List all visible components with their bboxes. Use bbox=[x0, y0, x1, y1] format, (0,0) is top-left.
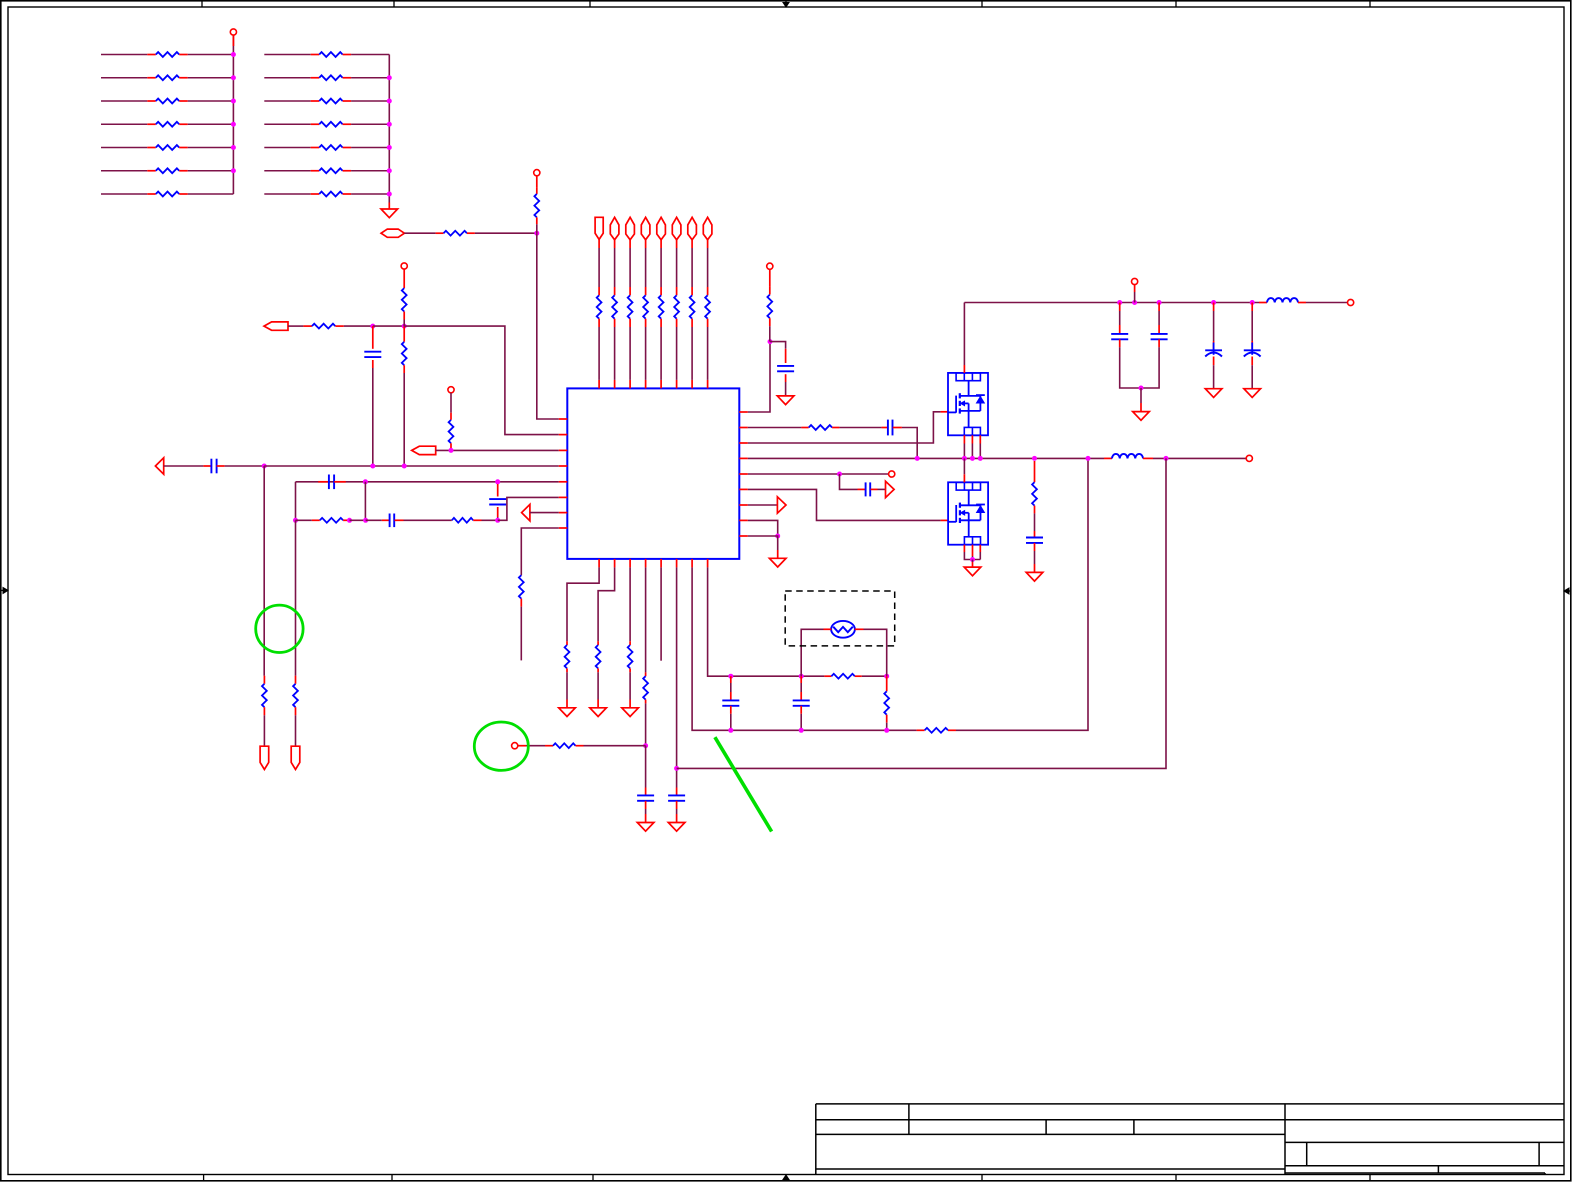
resistor R33 bbox=[769, 287, 771, 295]
wire flag column 1 bbox=[598, 239, 600, 248]
IC U1 left pin 2 bbox=[559, 434, 568, 436]
IC U1 bottom pin 5 bbox=[660, 559, 662, 568]
resistor R13 bbox=[311, 170, 320, 172]
capacitor C15 bbox=[676, 788, 678, 796]
junction SW snubber bbox=[1032, 456, 1037, 461]
junction pin9R bbox=[775, 534, 780, 539]
capacitor C3 bbox=[318, 481, 329, 483]
resistor R21 bbox=[312, 519, 320, 521]
green annotation circle 1 bbox=[256, 605, 303, 652]
flag F7 hex bbox=[688, 217, 697, 240]
ground C13 bbox=[1244, 389, 1261, 398]
resistor R34 bbox=[801, 427, 808, 429]
capacitor C12 polarized bbox=[1213, 303, 1215, 312]
junction right bank row 4 bbox=[387, 122, 392, 127]
wire pin7R bbox=[748, 504, 778, 506]
IC U1 right pin 3 bbox=[739, 442, 748, 444]
junction railA C17 bbox=[799, 674, 804, 679]
terminal above R18 bbox=[401, 263, 407, 269]
wire pin9R bbox=[748, 536, 778, 550]
wire node B rail to pin 2 left bbox=[404, 326, 559, 435]
wire pinB5 dangling bbox=[660, 567, 662, 660]
wire Q2 drain bbox=[963, 474, 965, 482]
wire right bank row 4 to bus bbox=[351, 123, 389, 125]
junction VIN C12 bbox=[1211, 300, 1216, 305]
IC U1 bottom pin 8 bbox=[707, 559, 709, 568]
wire left bank row 7 to bus bbox=[188, 193, 234, 195]
wire right bank row 6 bbox=[264, 170, 310, 172]
ground snubber bbox=[1026, 572, 1043, 581]
port P8 arrow right bbox=[777, 497, 786, 513]
junction pin5R bbox=[837, 472, 842, 477]
wire flag column 8 bbox=[707, 240, 709, 248]
wire C15 to ground bbox=[676, 809, 678, 814]
resistor R22 bbox=[451, 519, 453, 521]
flag F8 hex bbox=[703, 217, 712, 240]
resistor R15 bbox=[436, 232, 444, 234]
resistor R9 bbox=[311, 77, 320, 79]
wire left bank row 3 to bus bbox=[188, 100, 234, 102]
flag F4 hex bbox=[641, 217, 650, 240]
wire column 2 to pin bbox=[614, 327, 616, 380]
resistor R14 bbox=[311, 193, 320, 195]
wire column 8 to pin bbox=[707, 327, 709, 380]
wire R41 to railA end bbox=[862, 675, 887, 677]
wire Q1 sources to SW rail bbox=[963, 435, 965, 443]
inductor L2 bbox=[1259, 302, 1267, 304]
wire column 3 to pin bbox=[629, 327, 631, 380]
wire pin1R to riser bbox=[748, 342, 770, 412]
wire R24 to port bbox=[295, 715, 297, 746]
junction railB C16 bbox=[728, 728, 733, 733]
ground C15 bbox=[668, 823, 685, 832]
node C junction bbox=[643, 743, 648, 748]
capacitor C5 bbox=[382, 519, 390, 521]
resistor R31 bbox=[691, 287, 693, 295]
dashed box around Y1 bbox=[785, 591, 895, 646]
flag F2 hex bbox=[610, 217, 619, 240]
IC U1 left pin 6 bbox=[559, 496, 568, 498]
wire railC bbox=[677, 458, 1166, 768]
junction x770 bbox=[768, 339, 773, 344]
wire left bank row 7 bbox=[101, 193, 147, 195]
ground C6 bbox=[777, 396, 794, 405]
wire pinB7 to railB bbox=[692, 567, 917, 730]
wire right bank row 5 to bus bbox=[351, 147, 389, 149]
IC U1 left pin 8 bbox=[559, 527, 568, 529]
wire left bank row 2 to bus bbox=[188, 77, 234, 79]
IC U1 left pin 5 bbox=[559, 481, 568, 483]
IC U1 left pin 3 bbox=[559, 449, 568, 451]
port P5 down bbox=[260, 746, 269, 769]
junction left bank row 1 bbox=[231, 52, 236, 57]
wire R44 to node C bbox=[584, 745, 646, 747]
wire pinB1 net bbox=[567, 567, 599, 641]
wire column 6 to pin bbox=[676, 327, 678, 380]
wire pin3R to Q1 gate bbox=[748, 412, 941, 443]
ground C14 bbox=[637, 823, 654, 832]
wire right bank row 2 bbox=[264, 77, 310, 79]
wire drop x295 bbox=[295, 520, 297, 675]
ground C12 bbox=[1205, 389, 1222, 398]
wire right bank row 3 bbox=[264, 100, 310, 102]
flag F3 hex bbox=[626, 217, 635, 240]
title block bbox=[816, 1103, 1564, 1105]
wire rail1 bbox=[264, 465, 559, 467]
flag F1 down pentagon bbox=[595, 217, 603, 239]
junction row3 x295 bbox=[293, 518, 298, 523]
wire junction to C6 bbox=[770, 342, 786, 349]
wire L2 to terminal bbox=[1306, 302, 1348, 304]
IC U1 right pin 5 bbox=[739, 473, 748, 475]
wire left bank row 2 bbox=[101, 77, 147, 79]
terminal VCC left bank bbox=[230, 29, 236, 35]
resistor R43 bbox=[917, 729, 925, 731]
wire Y1 right bbox=[855, 628, 864, 630]
ground R37 bbox=[559, 708, 576, 717]
resistor R37 bbox=[566, 641, 568, 645]
flag F5 hex bbox=[657, 217, 666, 240]
wire Q1 drain bbox=[963, 365, 965, 373]
wire node A to node B bbox=[373, 325, 404, 327]
wire drop x264 bbox=[263, 466, 265, 676]
resistor R2 bbox=[147, 77, 156, 79]
wire flag column 3 bbox=[629, 240, 631, 248]
wire pin5R bbox=[748, 473, 889, 475]
wire C1 to rail1 bbox=[372, 368, 374, 466]
junction left bank row 6 bbox=[231, 168, 236, 173]
wire branch to C8 bbox=[840, 474, 858, 489]
junction VIN C13 bbox=[1250, 300, 1255, 305]
ground C10 C11 bbox=[1133, 412, 1150, 421]
IC U1 right pin 8 bbox=[739, 519, 748, 521]
wire right bank row 7 to bus bbox=[351, 193, 389, 195]
transistor Q2 bbox=[948, 482, 988, 544]
junction railB C17 bbox=[799, 728, 804, 733]
junction railA C16 bbox=[728, 674, 733, 679]
port P1 bbox=[381, 229, 404, 237]
junction left bank row 3 bbox=[231, 99, 236, 104]
wire right bank row 5 bbox=[264, 147, 310, 149]
capacitor C1 below node A bbox=[372, 326, 374, 349]
capacitor C11 bbox=[1158, 303, 1160, 312]
junction Q2 source bbox=[970, 557, 975, 562]
wire right bank row 3 to bus bbox=[351, 100, 389, 102]
resistor R17 bbox=[303, 325, 312, 327]
IC U1 left pin 4 bbox=[559, 465, 568, 467]
wire C2 to rail1 bbox=[225, 465, 265, 467]
IC U1 right pin 6 bbox=[739, 488, 748, 490]
junction join bar bbox=[1139, 386, 1144, 391]
wire R42 to railB bbox=[886, 723, 888, 731]
wire row3 mid bbox=[366, 519, 382, 521]
ground Q2 bbox=[972, 560, 974, 563]
resistor R20 bbox=[450, 413, 452, 420]
resistor R42 bbox=[886, 676, 888, 691]
resistor R44 bbox=[545, 745, 553, 747]
wire pin2R to R34 bbox=[748, 427, 802, 429]
wire node to IC pin 1 left bbox=[537, 233, 559, 419]
IC U1 top pin 1 bbox=[598, 380, 600, 389]
wire pinB2 net bbox=[598, 567, 615, 641]
IC U1 top pin 6 bbox=[676, 380, 678, 389]
wire pinB6 net bbox=[676, 567, 678, 787]
IC U1 top pin 5 bbox=[660, 380, 662, 389]
wire row3 riser to pin 6 left bbox=[498, 497, 559, 520]
wire P1 to junction bbox=[404, 232, 435, 234]
capacitor C6 bbox=[785, 349, 787, 363]
resistor R5 bbox=[147, 147, 156, 149]
IC U1 bottom pin 4 bbox=[645, 559, 647, 568]
wire column 4 to pin bbox=[645, 327, 647, 380]
wire P3 to C2 bbox=[164, 465, 204, 467]
green annotation circle 2 bbox=[474, 722, 528, 770]
wire P2 to R17 bbox=[288, 325, 303, 327]
wire R22 to junction bbox=[482, 519, 498, 521]
resistor R8 bbox=[311, 54, 320, 56]
IC U1 left pin 7 bbox=[559, 512, 568, 514]
transistor Q1 bbox=[948, 373, 988, 435]
resistor R19 below node B bbox=[403, 326, 405, 342]
wire SW rail bbox=[748, 457, 1104, 459]
IC U1 top pin 4 bbox=[645, 380, 647, 389]
wire C16 to railB bbox=[730, 714, 732, 731]
wire C17 to railB bbox=[800, 714, 802, 731]
wire P10 to R44 bbox=[526, 745, 545, 747]
wire pinB8 to railA bbox=[708, 567, 731, 676]
IC U1 bottom pin 1 bbox=[598, 559, 600, 568]
IC U1 top pin 3 bbox=[629, 380, 631, 389]
wire R19 to rail1 bbox=[403, 373, 405, 466]
wire pinB3 net bbox=[629, 567, 631, 641]
wire right bank row 1 to bus bbox=[351, 54, 389, 56]
port P7 arrow right bbox=[886, 481, 895, 497]
wire R34 to C7 bbox=[839, 427, 881, 429]
port P9 arrow left bbox=[522, 504, 530, 520]
resistor R6 bbox=[147, 170, 156, 172]
resistor R39 bbox=[629, 641, 631, 645]
wire right bank row 2 to bus bbox=[351, 77, 389, 79]
resistor R18 bbox=[402, 288, 407, 311]
junction Q1 source c bbox=[978, 456, 983, 461]
IC U1 bottom pin 3 bbox=[629, 559, 631, 568]
wire left bank row 5 bbox=[101, 147, 147, 149]
terminal pin5R bbox=[889, 471, 895, 477]
wire left bank row 3 bbox=[101, 100, 147, 102]
wire pin8L bbox=[521, 528, 559, 575]
junction right bank row 3 bbox=[387, 99, 392, 104]
junction SW riser x1088 bbox=[1086, 456, 1091, 461]
capacitor C8 bbox=[858, 488, 866, 490]
resistor R23 bbox=[263, 676, 265, 684]
wire pin6R to Q2 gate bbox=[748, 489, 941, 520]
terminal P10 bbox=[512, 743, 518, 749]
junction right bank row 5 bbox=[387, 145, 392, 150]
wire rail2 drop x365 bbox=[364, 482, 366, 521]
resistor R11 bbox=[311, 123, 320, 125]
resistor R10 bbox=[311, 100, 320, 102]
junction left bank row 5 bbox=[231, 145, 236, 150]
IC U1 bottom pin 2 bbox=[614, 559, 616, 568]
wire right bank row 4 bbox=[264, 123, 310, 125]
wire flag column 4 bbox=[645, 240, 647, 248]
wire P9 to pin7L bbox=[530, 512, 559, 514]
resistor R24 bbox=[295, 676, 297, 684]
junction right bank row 7 bbox=[387, 192, 392, 197]
junction railA end bbox=[884, 674, 889, 679]
wire left bank bus bbox=[232, 35, 234, 194]
resistor R16 pullup bbox=[536, 187, 538, 194]
IC U1 right pin 7 bbox=[739, 504, 748, 506]
resistor R4 bbox=[147, 123, 156, 125]
wire node C down bbox=[645, 746, 647, 788]
node B junction bbox=[402, 324, 407, 329]
wire left bank row 5 to bus bbox=[188, 147, 234, 149]
junction right bank row 6 bbox=[387, 168, 392, 173]
wire rail2 left drop bbox=[295, 482, 297, 521]
ground pins 8-9 bbox=[777, 550, 779, 558]
junction row3 R21 bbox=[347, 518, 352, 523]
wire column 1 to pin bbox=[598, 327, 600, 380]
wire flag column 2 bbox=[614, 240, 616, 248]
IC U1 right pin 9 bbox=[739, 535, 748, 537]
node pin1L pullup junction bbox=[534, 231, 539, 236]
wire R40 to node C bbox=[645, 703, 647, 745]
junction SW C7 bbox=[915, 456, 920, 461]
resistor R26 bbox=[614, 287, 616, 295]
resistor R29 bbox=[660, 287, 662, 295]
resistor R3 bbox=[147, 100, 156, 102]
junction rail2 x365 bbox=[363, 479, 368, 484]
capacitor C13 polarized bbox=[1251, 303, 1253, 312]
capacitor C2 bbox=[203, 465, 211, 467]
wire bar to ground bbox=[1140, 388, 1142, 403]
junction VIN C11 bbox=[1157, 300, 1162, 305]
IC U1 body bbox=[567, 388, 739, 559]
resistor R32 bbox=[707, 287, 709, 295]
junction rail1 x264 bbox=[262, 464, 267, 469]
capacitor C14 bbox=[645, 788, 647, 796]
wire L1 to terminal bbox=[1153, 457, 1246, 459]
wire left bank row 4 to bus bbox=[188, 123, 234, 125]
inductor L1 bbox=[1104, 457, 1112, 459]
resistor R30 bbox=[676, 287, 678, 295]
wire Y1 left bbox=[824, 628, 832, 630]
wire R35 dangling bbox=[520, 607, 522, 661]
junction left bank row 2 bbox=[231, 75, 236, 80]
junction rail1 R19 bbox=[402, 464, 407, 469]
capacitor C10 bbox=[1119, 303, 1121, 312]
wire flag column 6 bbox=[676, 240, 678, 248]
wire C4 to row3 bbox=[497, 517, 499, 520]
IC U1 top pin 2 bbox=[614, 380, 616, 389]
junction rail2 x497 bbox=[495, 479, 500, 484]
green annotation line bbox=[715, 737, 772, 831]
capacitor C7 bbox=[882, 427, 888, 429]
wire left bank row 1 bbox=[101, 54, 147, 56]
wire row3 R21 to x365 bbox=[350, 519, 366, 521]
resistor R27 bbox=[629, 287, 631, 295]
port P2 bbox=[264, 322, 288, 330]
IC U1 bottom pin 6 bbox=[676, 559, 678, 568]
resistor R35 bbox=[519, 575, 524, 598]
wire C14 to ground bbox=[645, 809, 647, 814]
terminal VIN out bbox=[1348, 299, 1354, 305]
wire C7 to SW rail bbox=[902, 428, 917, 459]
junction left bank row 4 bbox=[231, 122, 236, 127]
port P4 bbox=[412, 446, 436, 454]
terminal SW out bbox=[1246, 455, 1252, 461]
wire railA bbox=[731, 675, 825, 677]
wire Q2 sources bbox=[963, 545, 965, 552]
wire right bank row 7 bbox=[264, 193, 310, 195]
capacitor C16 bbox=[730, 676, 732, 683]
junction P4 R20 bbox=[449, 448, 454, 453]
wire R17 to node A bbox=[344, 325, 373, 327]
ground R38 bbox=[590, 708, 607, 717]
IC U1 top pin 7 bbox=[691, 380, 693, 389]
junction Q1 source b bbox=[970, 456, 975, 461]
wire R36 to C9 bbox=[1034, 513, 1036, 531]
wire flag column 5 bbox=[660, 240, 662, 248]
wire R39 to ground bbox=[629, 672, 631, 699]
wire R23 to port bbox=[263, 715, 265, 746]
terminal pullup R16 bbox=[534, 170, 540, 176]
junction rail1 C1 bbox=[370, 464, 375, 469]
wire R15 to node bbox=[475, 232, 537, 234]
wire P4 row to IC pin 3 left bbox=[436, 449, 559, 451]
wire left bank row 1 to bus bbox=[188, 54, 234, 56]
junction SW x1166 bbox=[1164, 456, 1169, 461]
resistor R28 bbox=[645, 287, 647, 295]
wire column 5 to pin bbox=[660, 327, 662, 380]
junction VIN terminal bbox=[1132, 300, 1137, 305]
wire railB to SW riser bbox=[956, 458, 1088, 730]
resistor R7 bbox=[147, 193, 156, 195]
wire row3 left bbox=[296, 519, 312, 521]
capacitor C4 bbox=[497, 484, 499, 497]
wire C9 to ground bbox=[1034, 551, 1036, 564]
junction right bank row 2 bbox=[387, 75, 392, 80]
junction row3 x365 bbox=[363, 518, 368, 523]
junction pinB6 railC bbox=[674, 766, 679, 771]
terminal R33 bbox=[767, 263, 773, 269]
wire right bank row 6 to bus bbox=[351, 170, 389, 172]
ground right bank bbox=[388, 203, 390, 210]
wire column 7 to pin bbox=[691, 327, 693, 380]
crystal Y1 bbox=[831, 621, 855, 638]
wire flag column 7 bbox=[691, 240, 693, 248]
junction VIN C10 bbox=[1117, 300, 1122, 305]
port P3 arrow bbox=[155, 458, 163, 474]
wire C12 to ground bbox=[1213, 365, 1215, 389]
wire C8 to port bbox=[878, 488, 886, 490]
wire C13 to ground bbox=[1251, 365, 1253, 389]
IC U1 top pin 8 bbox=[707, 380, 709, 389]
junction Q1 source a bbox=[962, 456, 967, 461]
IC U1 left pin 1 bbox=[559, 418, 568, 420]
resistor R1 bbox=[147, 54, 156, 56]
wire left bank row 4 bbox=[101, 123, 147, 125]
junction railB R42 bbox=[884, 728, 889, 733]
wire C5 to R22 bbox=[404, 519, 452, 521]
resistor R40 bbox=[645, 672, 647, 676]
wire C10 C11 join bar bbox=[1120, 347, 1159, 388]
wire pin8R bbox=[748, 520, 778, 536]
ground R39 bbox=[622, 708, 639, 717]
flag F6 hex bbox=[672, 217, 681, 240]
IC U1 right pin 1 bbox=[739, 411, 748, 413]
